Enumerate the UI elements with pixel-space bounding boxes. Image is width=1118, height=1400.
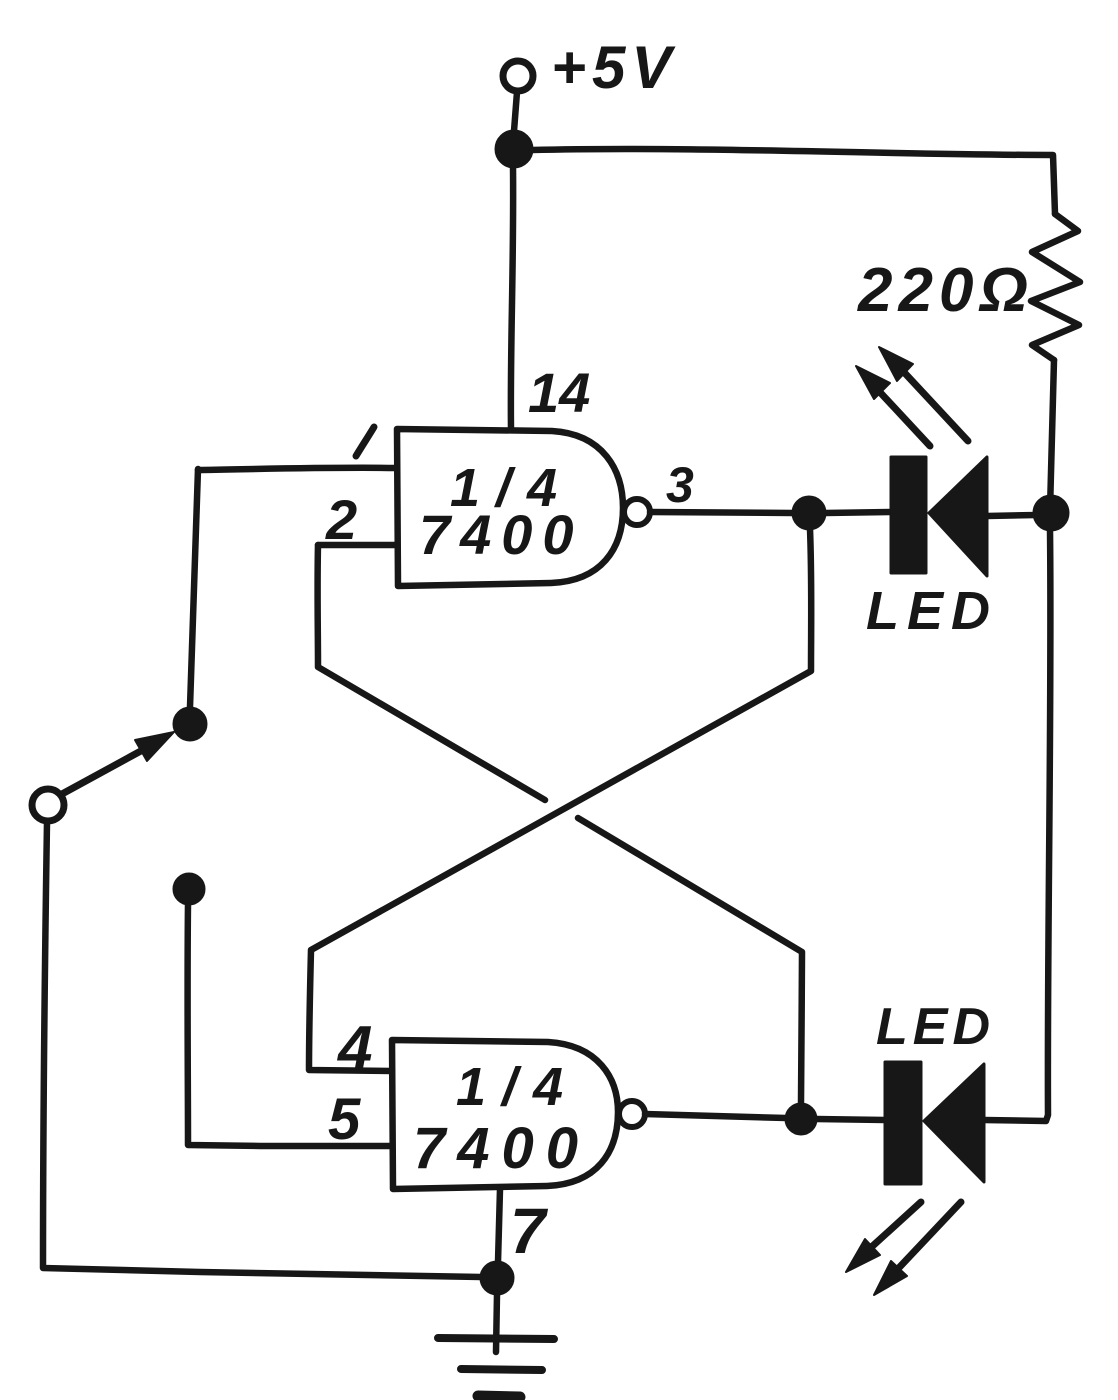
svg-text:LED: LED [866, 581, 998, 641]
resistor R1 220 ohm [1031, 214, 1080, 360]
LED D2 cathode bar [885, 1062, 921, 1184]
light arrow D1 b [901, 369, 968, 441]
wire LED D1 to node B [987, 513, 1050, 516]
light arrow D1 a [877, 389, 930, 446]
switch S1 contact node [174, 708, 206, 740]
svg-text:3: 3 [666, 457, 694, 513]
svg-text:+5V: +5V [551, 34, 677, 101]
switch S1 lower contact node [174, 874, 204, 904]
LED D1 cathode bar [891, 457, 926, 573]
switch S1 pole terminal [32, 789, 64, 821]
svg-text:4: 4 [336, 1014, 372, 1083]
light arrow D2 b [894, 1202, 961, 1273]
svg-text:5: 5 [328, 1087, 361, 1152]
NAND gate U1A body [397, 429, 623, 586]
svg-text:LED: LED [876, 998, 995, 1056]
LED D1 anode triangle [929, 457, 987, 576]
NAND gate U1B body [392, 1040, 618, 1189]
wire terminal to Vcc node [514, 92, 517, 131]
wire output node to LED D2 [816, 1119, 885, 1120]
wire pin 1 input [198, 468, 395, 470]
ground symbol [438, 1338, 554, 1339]
wire U1B output to node [645, 1114, 786, 1118]
wire pin 7 to ground node [498, 1189, 500, 1262]
LED D2 anode triangle [924, 1064, 984, 1182]
svg-text:7400: 7400 [419, 503, 584, 566]
svg-text:14: 14 [528, 361, 590, 424]
wire switch pole up to pin 1 [190, 469, 198, 707]
wire pole terminal down to ground rail [43, 822, 481, 1277]
svg-text:7400: 7400 [413, 1116, 590, 1181]
wire pin 2 stub [318, 542, 395, 549]
inversion bubble U1A [624, 499, 650, 525]
wire lower contact to pin 5 [188, 904, 392, 1146]
svg-text:220Ω: 220Ω [857, 256, 1034, 325]
node U1B output junction [786, 1104, 816, 1134]
node U1A output junction [793, 497, 825, 529]
wire Vcc node to top-right corner [532, 149, 1055, 214]
ground node junction [481, 1262, 513, 1294]
cross-coupling wire: pin2 to U2 output (broken at crossing) [318, 545, 545, 800]
svg-text:7: 7 [510, 1195, 549, 1267]
inversion bubble U1B [619, 1101, 645, 1127]
switch S1 lever [62, 746, 150, 794]
light arrow D2 a [866, 1202, 921, 1252]
power terminal +5V [503, 61, 533, 91]
wire U1A output to LED D1 node [650, 512, 793, 513]
node Vcc junction [496, 131, 532, 167]
wire output node to LED D1 [825, 512, 891, 513]
node B resistor-LED1 junction [1034, 496, 1068, 530]
cross-coupling wire: U1A output down to pin 4 [309, 529, 811, 1071]
wire right rail down to LED D2 [984, 530, 1050, 1121]
wire resistor to node B [1050, 360, 1054, 510]
svg-text:1/4: 1/4 [456, 1057, 579, 1117]
svg-text:2: 2 [325, 488, 357, 551]
wire ground node to ground symbol [496, 1294, 497, 1352]
pin label 1 [356, 427, 374, 456]
wire pin 14 to Vcc [511, 167, 513, 429]
